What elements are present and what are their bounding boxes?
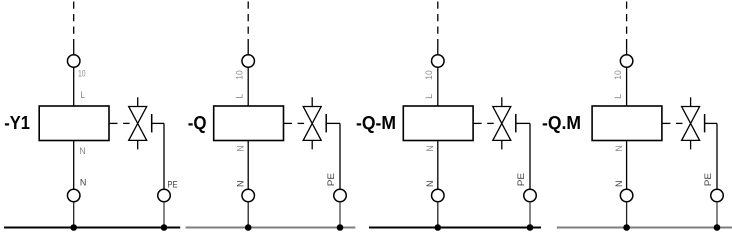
bus bar (bottom rail), circuit Q-M xyxy=(369,226,541,228)
svg-text:N: N xyxy=(614,180,624,187)
wire: terminal PE to bus, circuit Y1 xyxy=(163,202,165,228)
wire N: box to terminal N, circuit Y1 xyxy=(73,141,75,189)
wire L: terminal 10 to coil box, circuit Y1 xyxy=(73,67,75,106)
wire: valve top port stub, circuit Q xyxy=(311,97,313,106)
PE contact bar, circuit Q xyxy=(325,114,327,132)
svg-text:10: 10 xyxy=(424,70,434,79)
svg-text:PE: PE xyxy=(516,173,526,186)
svg-text:N: N xyxy=(79,146,86,156)
wire PE: down to terminal, circuit Q xyxy=(339,123,341,189)
valve (hourglass) -Q.M xyxy=(682,107,700,141)
terminal N (circle), circuit Q.M xyxy=(620,189,633,202)
svg-text:N: N xyxy=(236,180,246,187)
wire: valve top port stub, circuit Y1 xyxy=(137,97,139,106)
svg-text:PE: PE xyxy=(167,179,177,189)
svg-text:10: 10 xyxy=(235,70,245,79)
wire: valve bottom port stub, circuit Q xyxy=(311,140,313,149)
bus bar (bottom rail), circuit Q xyxy=(186,226,356,228)
PE contact bar, circuit Y1 xyxy=(151,114,153,132)
wire: stub above terminal 10, circuit Q.M xyxy=(626,46,628,55)
junction: N wire to bus, circuit Q.M xyxy=(623,224,630,231)
wire: stub above terminal 10, circuit Q-M xyxy=(437,46,439,55)
svg-text:-Q-M: -Q-M xyxy=(356,113,396,133)
wire PE: bar to corner, circuit Q-M xyxy=(516,122,530,124)
bus bar (bottom rail), circuit Q.M xyxy=(557,226,732,228)
wire: dash segment of link, circuit Q xyxy=(298,122,305,124)
wire PE: bar to corner, circuit Q xyxy=(326,122,340,124)
wire: valve top port stub, circuit Q-M xyxy=(501,97,503,106)
terminal 10 (circle), circuit Q-M xyxy=(432,55,445,68)
wire: stub above terminal 10, circuit Q xyxy=(247,46,249,55)
svg-text:N: N xyxy=(614,145,624,152)
terminal N (circle), circuit Y1 xyxy=(67,189,80,202)
wire N: box to terminal N, circuit Q xyxy=(247,141,249,189)
junction: N wire to bus, circuit Q-M xyxy=(435,224,442,231)
svg-text:-Q: -Q xyxy=(188,113,207,133)
svg-text:PE: PE xyxy=(703,173,713,186)
wire: terminal N to bus, circuit Q-M xyxy=(437,202,439,228)
wire: terminal PE to bus, circuit Q.M xyxy=(716,202,718,228)
svg-text:N: N xyxy=(425,145,435,152)
wire: dashed link box to valve, circuit Q xyxy=(283,122,292,124)
wire: terminal N to bus, circuit Y1 xyxy=(73,202,75,228)
wire: dashed link box to valve, circuit Q.M xyxy=(662,122,671,124)
svg-text:L: L xyxy=(613,94,623,99)
wire: terminal N to bus, circuit Q xyxy=(247,202,249,228)
terminal N (circle), circuit Q xyxy=(242,189,255,202)
junction: PE wire to bus, circuit Q-M xyxy=(527,224,534,231)
wire: valve top port stub, circuit Q.M xyxy=(690,97,692,106)
wire: valve bottom port stub, circuit Y1 xyxy=(137,140,139,149)
svg-text:L: L xyxy=(424,94,434,99)
svg-text:N: N xyxy=(236,145,246,152)
wire: valve bottom port stub, circuit Q-M xyxy=(501,140,503,149)
valve (hourglass) -Q-M xyxy=(493,107,511,141)
terminal 10 (circle), circuit Q.M xyxy=(620,55,633,68)
wire PE: bar to corner, circuit Q.M xyxy=(705,122,717,124)
svg-text:-Y1: -Y1 xyxy=(4,113,30,133)
svg-text:N: N xyxy=(80,178,87,188)
wire: dashed incoming supply, circuit Q-M xyxy=(437,2,439,48)
wire N: box to terminal N, circuit Q.M xyxy=(626,141,628,189)
wire: terminal PE to bus, circuit Q-M xyxy=(529,202,531,228)
wire: dashed incoming supply, circuit Q xyxy=(247,2,249,48)
junction: N wire to bus, circuit Y1 xyxy=(70,224,77,231)
svg-text:N: N xyxy=(425,180,435,187)
terminal PE (circle), circuit Q xyxy=(334,189,347,202)
coil box -Q-M xyxy=(403,106,473,141)
coil box -Q.M xyxy=(592,106,662,141)
wire: dashed link box to valve, circuit Y1 xyxy=(109,122,118,124)
wire: dash segment of link, circuit Q-M xyxy=(487,122,494,124)
bus bar (bottom rail), circuit Y1 xyxy=(4,226,180,228)
PE contact bar, circuit Q-M xyxy=(515,114,517,132)
terminal PE (circle), circuit Y1 xyxy=(158,189,171,202)
terminal 10 (circle), circuit Y1 xyxy=(67,55,80,68)
svg-text:10: 10 xyxy=(78,68,86,78)
wire PE: bar to corner, circuit Y1 xyxy=(152,122,164,124)
wire L: terminal 10 to coil box, circuit Q.M xyxy=(626,67,628,106)
wire: terminal N to bus, circuit Q.M xyxy=(626,202,628,228)
coil box -Y1 xyxy=(39,106,109,141)
svg-text:-Q.M: -Q.M xyxy=(542,113,581,133)
wire: dashed link box to valve, circuit Q-M xyxy=(473,122,482,124)
coil box -Q xyxy=(214,106,284,141)
wire: valve bottom port stub, circuit Q.M xyxy=(690,140,692,149)
wire PE: down to terminal, circuit Q-M xyxy=(529,123,531,189)
junction: PE wire to bus, circuit Y1 xyxy=(161,224,168,231)
wire: dash segment of link, circuit Q.M xyxy=(676,122,683,124)
valve (hourglass) -Y1 xyxy=(129,107,147,141)
wire PE: down to terminal, circuit Q.M xyxy=(716,123,718,189)
svg-text:L: L xyxy=(80,90,85,100)
wire: dashed incoming supply, circuit Y1 xyxy=(73,2,75,48)
junction: PE wire to bus, circuit Q xyxy=(337,224,344,231)
wire: dash segment of link, circuit Y1 xyxy=(123,122,130,124)
wire: dashed incoming supply, circuit Q.M xyxy=(626,2,628,48)
svg-text:10: 10 xyxy=(613,70,623,79)
svg-text:L: L xyxy=(234,94,244,99)
terminal PE (circle), circuit Q-M xyxy=(524,189,537,202)
wire L: terminal 10 to coil box, circuit Q-M xyxy=(437,67,439,106)
wire: terminal PE to bus, circuit Q xyxy=(339,202,341,228)
terminal N (circle), circuit Q-M xyxy=(432,189,445,202)
valve (hourglass) -Q xyxy=(303,107,321,141)
wire PE: down to terminal, circuit Y1 xyxy=(163,123,165,189)
junction: PE wire to bus, circuit Q.M xyxy=(714,224,721,231)
terminal 10 (circle), circuit Q xyxy=(242,55,255,68)
terminal PE (circle), circuit Q.M xyxy=(711,189,724,202)
junction: N wire to bus, circuit Q xyxy=(245,224,252,231)
PE contact bar, circuit Q.M xyxy=(704,114,706,132)
wire: stub above terminal 10, circuit Y1 xyxy=(73,46,75,55)
wire L: terminal 10 to coil box, circuit Q xyxy=(247,67,249,106)
wire N: box to terminal N, circuit Q-M xyxy=(437,141,439,189)
svg-text:PE: PE xyxy=(326,173,336,186)
